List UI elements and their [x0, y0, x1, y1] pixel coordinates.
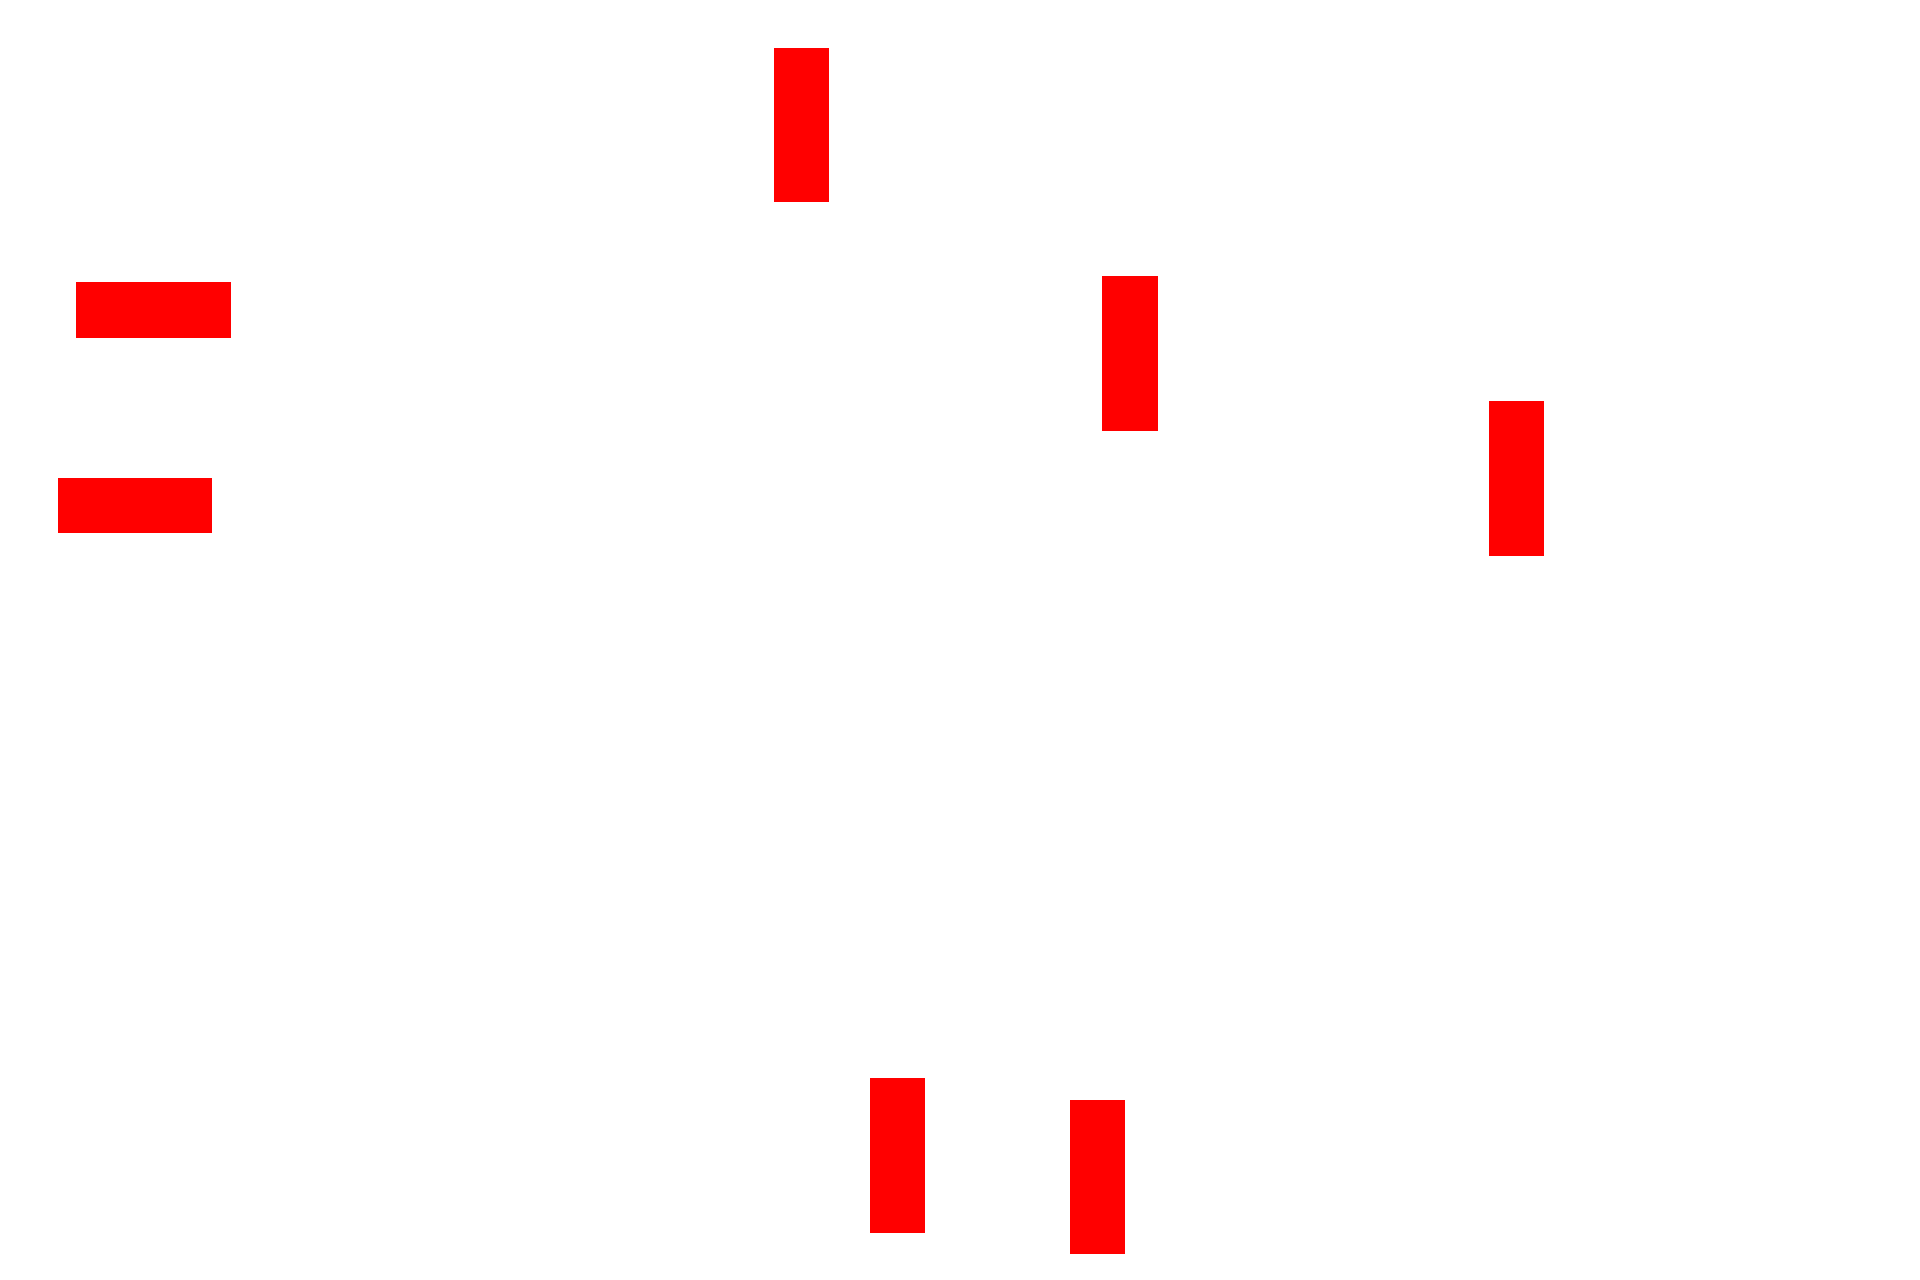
red bar 5 (horizontal, mid left): [58, 478, 212, 533]
red bar 3 (vertical, center right): [1102, 276, 1158, 431]
red bar 1 (vertical, top center): [774, 48, 829, 202]
red bar 6 (vertical, bottom center-left): [870, 1078, 925, 1233]
red bar 2 (horizontal, upper left): [76, 282, 231, 338]
red bar 7 (vertical, bottom center-right): [1070, 1100, 1125, 1254]
red bar 4 (vertical, far right): [1489, 401, 1544, 556]
